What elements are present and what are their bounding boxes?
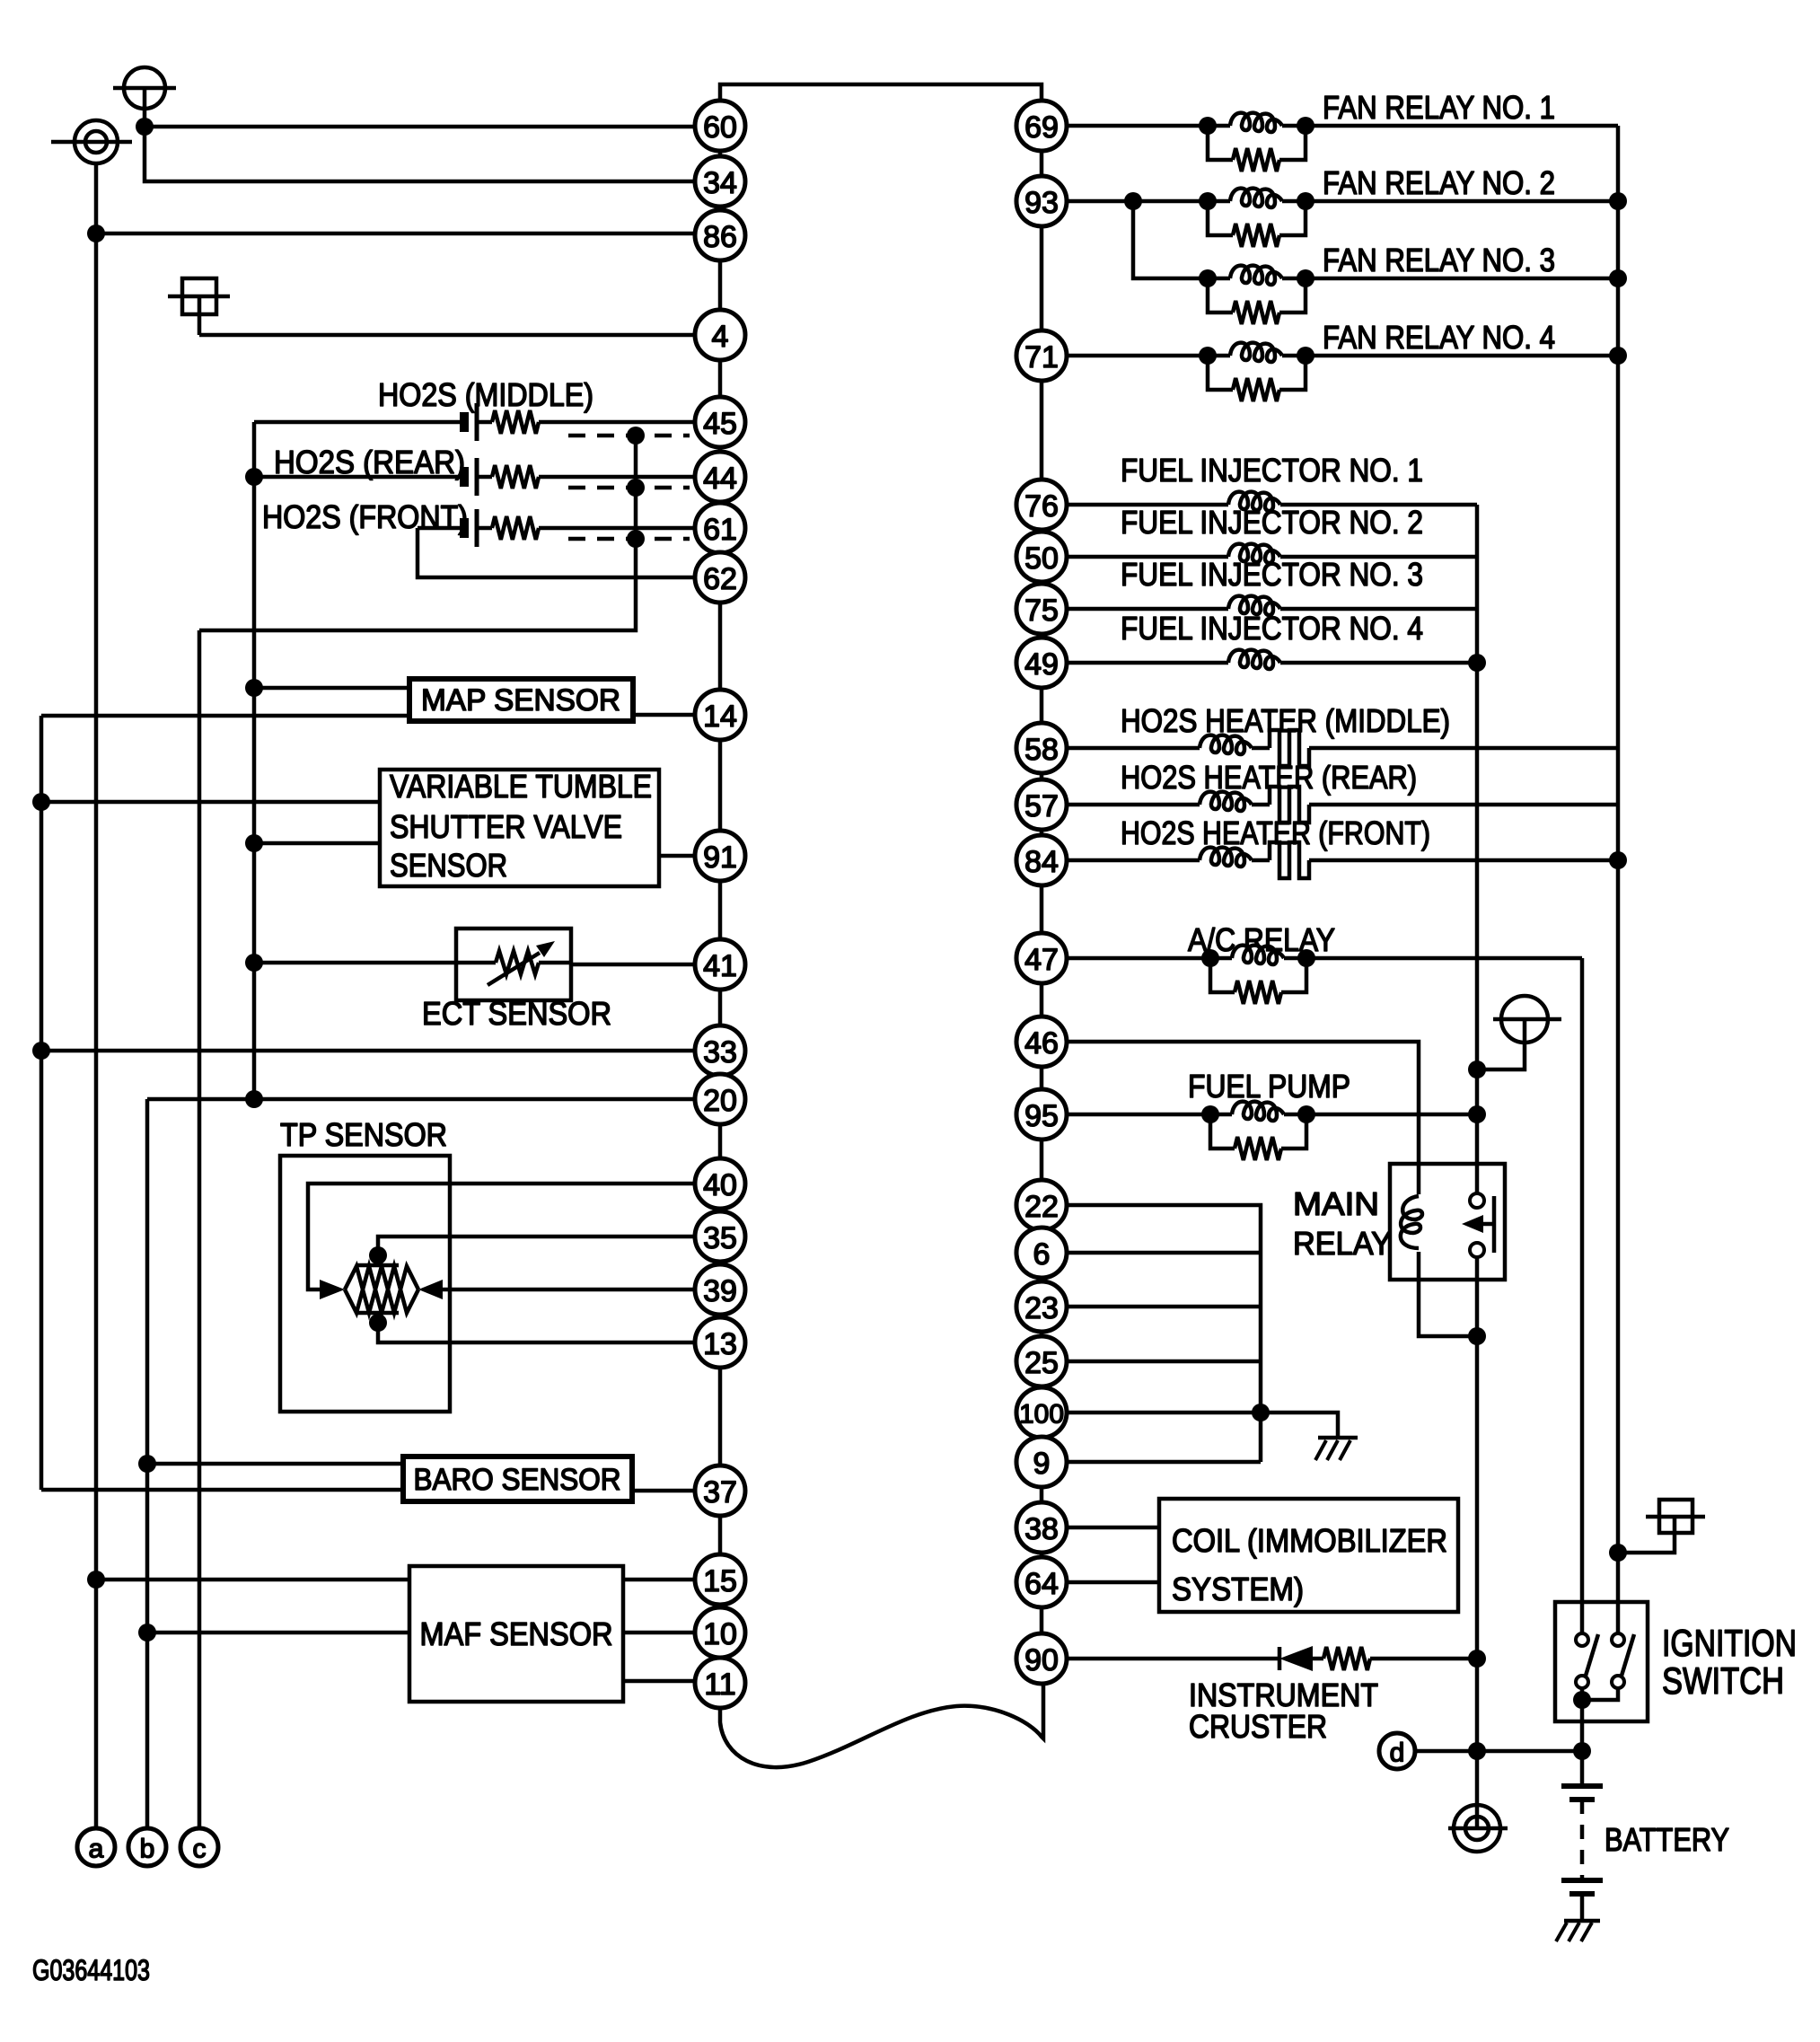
dashed shield wire 45: [568, 434, 690, 438]
svg-text:49: 49: [1024, 647, 1059, 682]
svg-text:47: 47: [1024, 943, 1059, 977]
svg-text:93: 93: [1024, 186, 1059, 220]
wire 62 return: [418, 528, 695, 577]
svg-text:58: 58: [1024, 733, 1059, 767]
svg-text:39: 39: [703, 1274, 737, 1308]
junction branch rail: [1252, 1404, 1270, 1421]
junction rail -> ECT: [245, 954, 263, 972]
wire MAF->pin11: [623, 1679, 695, 1684]
VTSS top wire: [41, 800, 380, 805]
wire pin chain link: [718, 360, 723, 397]
COIL (IMMOBILIZER SYSTEM) box: [1159, 1499, 1458, 1612]
chassis ground symbol battery: [1564, 1919, 1600, 1923]
wire to pin 4: [199, 333, 695, 338]
injector coil 2: [1067, 555, 1228, 559]
pin 93: [1016, 176, 1067, 226]
connector circle b: [128, 1828, 166, 1866]
pole junction: [1580, 1688, 1585, 1700]
node junction at pin 60 feed: [136, 118, 154, 136]
svg-text:50: 50: [1024, 541, 1059, 576]
wire pin chain link: [1040, 1607, 1044, 1633]
pin 4: [695, 310, 745, 360]
wire pin90 -> diode: [1067, 1657, 1279, 1661]
main relay switch contacts: [1470, 1193, 1484, 1208]
pin 57: [1016, 779, 1067, 830]
svg-text:CRUSTER: CRUSTER: [1189, 1708, 1327, 1745]
pin 34: [695, 156, 745, 207]
heater coil+element: [1067, 858, 1200, 863]
svg-text:b: b: [140, 1835, 155, 1864]
wire pin chain link: [718, 447, 723, 452]
junction bus fuel pump: [1468, 1105, 1486, 1123]
HO2S middle sensor cell+resistor: [254, 420, 464, 425]
dashed shield wire 61: [568, 537, 690, 541]
wire pin chain link: [1040, 830, 1044, 835]
svg-text:VARIABLE TUMBLE: VARIABLE TUMBLE: [390, 768, 652, 805]
svg-text:10: 10: [703, 1617, 737, 1651]
wire pin69 -> fan relay 1: [1067, 124, 1208, 128]
pin 62: [695, 552, 745, 603]
ECT arrow: [488, 953, 540, 985]
pin 76: [1016, 480, 1067, 530]
svg-text:38: 38: [1024, 1512, 1059, 1546]
junction right bus heater: [1609, 851, 1627, 869]
wire MAP->pin14: [633, 713, 695, 717]
wire pin93 -> fan relay 2: [1067, 199, 1208, 204]
svg-text:14: 14: [703, 700, 737, 734]
branch wire: [1067, 1305, 1261, 1309]
wire MAF->pin10: [623, 1631, 695, 1635]
svg-text:100: 100: [1019, 1400, 1064, 1430]
HO2S front sensor cell+resistor: [418, 526, 464, 531]
wire relay3 -> right bus: [1306, 277, 1618, 281]
wire VTSS->pin91: [659, 854, 695, 858]
pin 9: [1016, 1437, 1067, 1487]
pin 91: [695, 831, 745, 881]
pin 22: [1016, 1180, 1067, 1230]
svg-text:61: 61: [703, 513, 737, 547]
pin 38: [1016, 1502, 1067, 1553]
svg-text:ECT SENSOR: ECT SENSOR: [422, 995, 611, 1032]
junction rail 44: [245, 468, 263, 486]
VTSS lower wire: [254, 841, 380, 846]
wire pin chain link: [1040, 381, 1044, 480]
rail b vertical: [145, 1099, 150, 1828]
shield drain wire down-left: [199, 539, 636, 630]
junction rail->MAP: [245, 679, 263, 697]
pin 61: [695, 503, 745, 553]
svg-text:45: 45: [703, 407, 737, 441]
wire pin chain link: [1040, 582, 1044, 584]
break squiggle between pin 11 and pin 90: [720, 1686, 1043, 1767]
wire to pin 20: [147, 1097, 695, 1102]
svg-text:SWITCH: SWITCH: [1662, 1659, 1784, 1702]
connector circle c: [180, 1828, 218, 1866]
svg-text:11: 11: [704, 1668, 735, 1702]
pin 46: [1016, 1017, 1067, 1067]
ground rail a (vertical): [94, 163, 99, 1828]
branch wire: [1067, 1411, 1261, 1415]
junction main relay output: [1468, 1327, 1486, 1345]
wire pin chain link: [1040, 1140, 1044, 1180]
wire pin chain link: [1040, 1487, 1044, 1502]
wire pin38 -> coil box: [1067, 1526, 1159, 1530]
svg-text:SENSOR: SENSOR: [390, 847, 507, 884]
injector coil 4: [1067, 661, 1228, 665]
svg-text:FUEL INJECTOR NO. 2: FUEL INJECTOR NO. 2: [1121, 504, 1423, 541]
ignition switch box: [1555, 1602, 1648, 1721]
injector coil 3: [1067, 607, 1228, 612]
wire pin chain link: [718, 1315, 723, 1317]
pin 13: [695, 1317, 745, 1368]
wire A/C relay -> ignition feed: [1306, 956, 1582, 961]
svg-text:37: 37: [703, 1475, 737, 1509]
heater coil+element: [1067, 803, 1200, 807]
svg-text:COIL (IMMOBILIZER: COIL (IMMOBILIZER: [1172, 1522, 1447, 1559]
junction right bus relay4: [1609, 347, 1627, 365]
svg-text:IGNITION: IGNITION: [1662, 1622, 1797, 1664]
bus down to instrument junction: [1475, 1336, 1480, 1828]
ECT thermistor zigzag: [496, 951, 539, 974]
wire to pin 60: [145, 125, 695, 129]
wire pin22 branch: [1067, 1205, 1261, 1462]
wire pin64 -> coil box: [1067, 1580, 1159, 1585]
pin 6: [1016, 1228, 1067, 1278]
svg-text:MAF SENSOR: MAF SENSOR: [420, 1615, 613, 1652]
pin 35: [695, 1211, 745, 1262]
main relay coil vertical: [1401, 1196, 1422, 1248]
wire d -> battery node: [1415, 1749, 1582, 1754]
MAP sensor top wire: [254, 686, 409, 691]
svg-text:FUEL PUMP: FUEL PUMP: [1188, 1068, 1350, 1105]
wire pin95 -> fuel pump: [1067, 1113, 1210, 1117]
main relay actuator arrow: [1492, 1196, 1497, 1253]
wire pin chain link: [718, 1516, 723, 1554]
fan relay no.1 coil+resistor: [1199, 117, 1217, 135]
svg-text:23: 23: [1024, 1291, 1059, 1325]
bus through switch: [1475, 1164, 1480, 1193]
MAF SENSOR box: [409, 1566, 623, 1702]
fan relay no.4 coil+resistor: [1199, 347, 1217, 365]
svg-text:57: 57: [1024, 789, 1059, 823]
pin 33: [695, 1025, 745, 1076]
pin 64: [1016, 1557, 1067, 1607]
junction bus instrument feed: [1468, 1650, 1486, 1668]
svg-text:SYSTEM): SYSTEM): [1172, 1571, 1304, 1607]
svg-text:60: 60: [703, 110, 737, 145]
diode (instrument cluster): [1278, 1647, 1282, 1670]
BARO SENSOR box: [403, 1457, 632, 1501]
junction right bus relay3: [1609, 269, 1627, 287]
junction shield 44: [627, 479, 645, 497]
wire pin chain link: [718, 1124, 723, 1158]
TP bottom node dot: [369, 1314, 387, 1332]
right bus vertical: [1616, 126, 1621, 1640]
branch wire: [1067, 1251, 1261, 1255]
junction switch poles: [1573, 1691, 1591, 1709]
svg-text:HO2S HEATER (MIDDLE): HO2S HEATER (MIDDLE): [1121, 702, 1450, 739]
wire pin chain link: [1040, 226, 1044, 330]
svg-text:86: 86: [703, 220, 737, 254]
wire pin chain link: [718, 603, 723, 690]
MAP SENSOR box: [409, 679, 633, 721]
wire pin chain link: [718, 207, 723, 210]
pin 40: [695, 1158, 745, 1209]
wire battery -> ground: [1580, 1894, 1585, 1921]
svg-text:90: 90: [1024, 1643, 1059, 1677]
wire pin chain link: [718, 1262, 723, 1264]
wire pin13 from TP bottom: [378, 1323, 695, 1342]
pin 47: [1016, 933, 1067, 983]
wire pin chain link: [1040, 530, 1044, 532]
junction right bus connector tap: [1609, 1544, 1627, 1562]
page connector square right: [1618, 1500, 1705, 1553]
pin 44: [695, 452, 745, 502]
pin 20: [695, 1074, 745, 1124]
svg-text:9: 9: [1033, 1447, 1051, 1481]
svg-text:75: 75: [1024, 594, 1059, 628]
wire MAF->pin15: [623, 1578, 695, 1582]
junction right bus relay2: [1609, 192, 1627, 210]
svg-text:HO2S HEATER (FRONT): HO2S HEATER (FRONT): [1121, 814, 1430, 851]
ignition switch pole 1: [1576, 1633, 1588, 1646]
wire pin chain link: [718, 990, 723, 1025]
svg-text:91: 91: [703, 841, 737, 875]
battery cell 2: [1561, 1878, 1603, 1883]
svg-text:64: 64: [1024, 1567, 1059, 1601]
svg-text:44: 44: [703, 462, 737, 496]
A/C relay coil+resistor: [1201, 949, 1219, 967]
svg-text:41: 41: [703, 949, 737, 983]
svg-text:a: a: [89, 1835, 104, 1864]
main relay box: [1390, 1164, 1505, 1280]
resistor: [1323, 1647, 1370, 1670]
svg-text:71: 71: [1024, 340, 1059, 374]
rail d vertical (BARO return): [40, 716, 44, 1490]
svg-text:46: 46: [1024, 1026, 1059, 1061]
svg-text:35: 35: [703, 1221, 737, 1255]
BARO top wire: [147, 1462, 403, 1466]
power symbol (circle with bar) right: [1477, 996, 1561, 1069]
wire resistor -> bus: [1370, 1657, 1477, 1661]
pin 11: [695, 1658, 745, 1708]
wire pin chain link: [718, 502, 723, 503]
junction battery node: [1573, 1742, 1591, 1760]
wire pin chain link: [1040, 1067, 1044, 1089]
wire pin chain link: [1040, 1332, 1044, 1336]
injector coil 1: [1067, 503, 1228, 507]
shield bus vertical: [634, 436, 638, 539]
junction bus d-wire: [1468, 1742, 1486, 1760]
fan relay no.3 coil+resistor: [1199, 269, 1217, 287]
svg-text:RELAY: RELAY: [1293, 1225, 1392, 1262]
wire fuel pump -> bus: [1306, 1113, 1477, 1117]
svg-text:FAN RELAY NO. 2: FAN RELAY NO. 2: [1323, 164, 1555, 201]
svg-text:22: 22: [1024, 1190, 1059, 1224]
svg-text:FUEL INJECTOR NO. 3: FUEL INJECTOR NO. 3: [1121, 556, 1423, 593]
potentiometer lattice: [376, 1255, 381, 1265]
pin 10: [695, 1607, 745, 1658]
junction rail b -> BARO: [138, 1455, 156, 1473]
pin 14: [695, 690, 745, 740]
svg-text:20: 20: [703, 1084, 737, 1118]
junction shield 61: [627, 530, 645, 548]
wire pin chain link: [1040, 885, 1044, 933]
VTSS box: [380, 770, 659, 886]
wire pin chain link: [718, 151, 723, 156]
pin 41: [695, 939, 745, 990]
svg-text:69: 69: [1024, 110, 1059, 145]
wire pin71 -> fan relay 4: [1067, 354, 1208, 358]
wire pin46 -> main relay coil: [1067, 1042, 1419, 1194]
svg-text:HO2S (MIDDLE): HO2S (MIDDLE): [378, 376, 593, 413]
svg-text:BATTERY: BATTERY: [1605, 1821, 1729, 1858]
wire switch -> battery node: [1580, 1700, 1585, 1786]
wire to pin 33: [41, 1049, 695, 1053]
connector circle d: [1379, 1733, 1415, 1769]
MAF wire 15 row: [96, 1578, 409, 1582]
svg-text:76: 76: [1024, 489, 1059, 524]
power symbol (circle with bar) top-left: [113, 67, 176, 119]
svg-text:FUEL INJECTOR NO. 1: FUEL INJECTOR NO. 1: [1121, 452, 1423, 488]
BARO lower wire from rail d: [41, 1488, 403, 1492]
wire pin chain link: [1040, 151, 1044, 176]
pin 84: [1016, 835, 1067, 885]
pin 75: [1016, 584, 1067, 634]
branch wire: [1067, 1360, 1261, 1364]
TP arrow left: [320, 1280, 345, 1299]
injector bus vertical: [1475, 505, 1480, 1164]
TP sensor box: [280, 1156, 450, 1412]
wire pin chain link: [1040, 983, 1044, 1017]
svg-text:MAIN: MAIN: [1293, 1185, 1379, 1222]
connector circle a: [77, 1828, 115, 1866]
page connector square top-left: [168, 278, 230, 335]
svg-text:FUEL INJECTOR NO. 4: FUEL INJECTOR NO. 4: [1121, 610, 1423, 647]
pin 15: [695, 1554, 745, 1605]
wire pin chain link: [1040, 1278, 1044, 1281]
junction rail d -> VTSS: [32, 793, 50, 811]
pin 50: [1016, 532, 1067, 582]
svg-text:TP SENSOR: TP SENSOR: [280, 1116, 447, 1153]
svg-text:95: 95: [1024, 1099, 1059, 1133]
svg-text:4: 4: [712, 320, 729, 354]
wire pin chain link: [718, 1368, 723, 1465]
svg-text:25: 25: [1024, 1346, 1059, 1380]
MAP sensor lower wire from rail d: [41, 714, 409, 718]
wire pin chain link: [1040, 1553, 1044, 1557]
bullseye connector bottom: [1448, 1805, 1508, 1852]
ground stub from 100 row: [1261, 1413, 1338, 1438]
svg-text:84: 84: [1024, 845, 1059, 879]
svg-text:FAN RELAY NO. 4: FAN RELAY NO. 4: [1323, 319, 1555, 356]
junction rail -> VTSS lower: [245, 834, 263, 852]
chassis ground symbol: [1318, 1436, 1358, 1440]
junction rail d -> 33: [32, 1042, 50, 1060]
svg-text:6: 6: [1033, 1237, 1051, 1272]
svg-text:MAP SENSOR: MAP SENSOR: [421, 683, 620, 717]
wire pin chain link: [1040, 1386, 1044, 1387]
pin 86: [695, 210, 745, 260]
wire pin chain link: [1040, 773, 1044, 779]
bridge wire pin60 to pin69: [720, 84, 1042, 101]
svg-text:62: 62: [703, 562, 737, 596]
left sensor rail (45/44): [252, 422, 257, 1099]
junction rail b -> MAF: [138, 1624, 156, 1642]
wire pin chain link: [1040, 634, 1044, 638]
ignition feed vertical: [1580, 958, 1585, 1640]
branch wire to fan relay 3: [1133, 201, 1208, 278]
ECT box: [456, 929, 571, 1000]
battery cell 1: [1561, 1783, 1603, 1789]
ECT internal wire: [456, 961, 496, 965]
svg-text:FAN RELAY NO. 3: FAN RELAY NO. 3: [1323, 242, 1555, 278]
fuel pump coil+resistor: [1201, 1105, 1219, 1123]
pin 49: [1016, 638, 1067, 688]
bullseye connector symbol top-left: [51, 120, 132, 163]
wire pin47 -> A/C relay: [1067, 956, 1210, 961]
wire pin39 into TP: [440, 1288, 695, 1292]
heater coil+element: [1067, 746, 1200, 751]
wire pin9: [1067, 1460, 1261, 1465]
junction bus power feed: [1468, 1061, 1486, 1078]
MAF wire 10 row: [147, 1631, 409, 1635]
pin 39: [695, 1264, 745, 1315]
pin 90: [1016, 1633, 1067, 1684]
pin 100: [1016, 1387, 1067, 1438]
wire relay2 -> right bus: [1306, 199, 1618, 204]
svg-text:34: 34: [703, 166, 737, 200]
pin 25: [1016, 1336, 1067, 1386]
pin 60: [695, 101, 745, 151]
fan relay no.2 coil+resistor: [1199, 192, 1217, 210]
wire relay1 -> right bus: [1306, 124, 1618, 128]
svg-text:15: 15: [703, 1564, 737, 1598]
pin 37: [695, 1465, 745, 1516]
pin 23: [1016, 1281, 1067, 1332]
pin 45: [695, 397, 745, 447]
svg-text:BARO SENSOR: BARO SENSOR: [414, 1463, 621, 1497]
ECT wire: [254, 961, 456, 965]
rail c vertical: [198, 630, 202, 1828]
junction rail a -> MAF: [87, 1571, 105, 1589]
svg-text:G03644103: G03644103: [32, 1954, 150, 1986]
ignition switch pole 2: [1612, 1633, 1624, 1646]
battery dashed link: [1580, 1800, 1585, 1880]
pin 95: [1016, 1089, 1067, 1140]
pin 69: [1016, 101, 1067, 151]
TP top node dot: [369, 1246, 387, 1264]
wire to pin 86: [96, 232, 695, 236]
wire pin chain link: [1040, 688, 1044, 723]
wire pin chain link: [718, 260, 723, 310]
junction on pin93 wire: [1124, 192, 1142, 210]
svg-text:FAN RELAY NO. 1: FAN RELAY NO. 1: [1323, 89, 1555, 126]
junction injector bus: [1468, 654, 1486, 672]
svg-text:13: 13: [703, 1327, 737, 1361]
junction on rail a: [87, 224, 105, 242]
wire pin chain link: [718, 740, 723, 831]
wire pin35 into TP: [378, 1237, 695, 1255]
dashed shield wire 44: [568, 486, 690, 490]
svg-text:d: d: [1390, 1738, 1405, 1768]
svg-text:40: 40: [703, 1168, 737, 1202]
wire BARO->pin37: [632, 1489, 695, 1493]
svg-text:SHUTTER VALVE: SHUTTER VALVE: [390, 808, 622, 845]
wire to pin 34: [145, 127, 695, 181]
wire pin chain link: [718, 881, 723, 939]
svg-text:33: 33: [703, 1035, 737, 1069]
